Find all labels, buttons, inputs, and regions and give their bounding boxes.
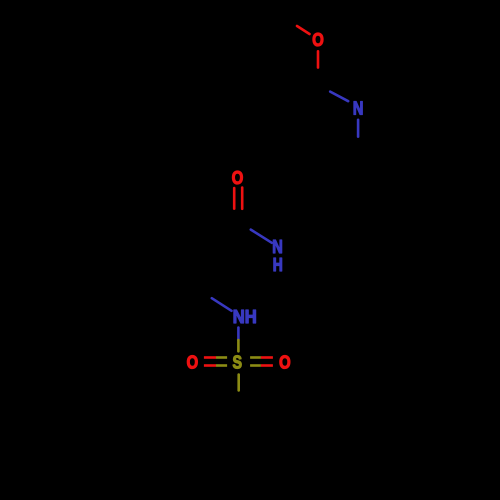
wire: double bond S=O3 top line, olive half — [216, 356, 227, 359]
wire: bond Cring-N3 (sulfonamide), blue half — [212, 298, 232, 311]
wire: double bond S=O3 top line, red half — [204, 356, 216, 359]
wire: bond C(=O)-N2 (amide), blue half — [251, 230, 272, 243]
svg-text:N: N — [272, 237, 283, 257]
wire: bond C6-N1 (pyridine), blue half — [330, 92, 348, 102]
svg-text:N: N — [353, 99, 364, 119]
svg-text:O: O — [312, 30, 324, 50]
svg-text:NH: NH — [233, 307, 257, 327]
svg-text:O: O — [279, 353, 291, 373]
svg-text:O: O — [187, 353, 199, 373]
wire: double bond S=O3 bottom line, red half — [204, 364, 216, 367]
wire: double bond C=O2 line 1, red half — [233, 188, 236, 209]
wire: bond CH3-O (methoxy), red half — [297, 26, 310, 34]
wire: double bond S=O4 top line, olive half — [250, 356, 261, 359]
svg-text:H: H — [273, 255, 283, 275]
wire: bond N1-C2 (pyridine), blue half — [357, 120, 360, 137]
svg-text:S: S — [232, 353, 242, 373]
wire: double bond S=O4 bottom line, red half — [261, 364, 273, 367]
svg-text:O: O — [232, 168, 244, 188]
wire: bond O1-C6 (pyridine), red half — [317, 51, 320, 67]
wire: bond S-CH3, olive half — [237, 375, 240, 391]
wire: double bond C=O2 line 2, red half — [241, 188, 244, 209]
wire: double bond S=O4 bottom line, olive half — [250, 364, 261, 367]
wire: double bond S=O3 bottom line, olive half — [216, 364, 227, 367]
wire: bond N3-S, blue half — [237, 328, 240, 340]
wire: double bond S=O4 top line, red half — [261, 356, 273, 359]
wire: bond N3-S, olive half — [237, 340, 240, 351]
